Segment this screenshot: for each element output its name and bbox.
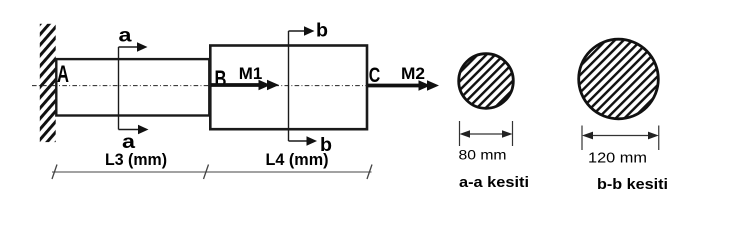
torque arrow M2 bbox=[368, 84, 423, 88]
section line b-b bbox=[289, 31, 309, 141]
svg-text:B: B bbox=[215, 66, 227, 92]
tick middle bbox=[204, 165, 209, 180]
svg-text:C: C bbox=[369, 63, 381, 87]
dimension line L3-L4 bbox=[52, 171, 372, 173]
dimension 80mm arrow bbox=[466, 133, 506, 135]
tick right bbox=[367, 165, 372, 180]
section b-b circle bbox=[579, 39, 659, 119]
section a-a circle bbox=[459, 54, 514, 109]
torque arrow M1 bbox=[211, 83, 262, 87]
arrowhead a top bbox=[137, 42, 148, 51]
dimension 120mm arrow bbox=[589, 135, 652, 137]
dimension 80mm ext lines bbox=[459, 121, 461, 146]
svg-text:L3 (mm): L3 (mm) bbox=[105, 151, 167, 169]
arrowhead b bottom bbox=[307, 136, 318, 145]
svg-text:b-b kesiti: b-b kesiti bbox=[597, 176, 668, 193]
section line a-a bbox=[119, 47, 141, 130]
arrowhead b top bbox=[304, 26, 315, 35]
shaft segment BC bbox=[210, 46, 367, 130]
centerline bbox=[32, 85, 367, 87]
svg-text:120 mm: 120 mm bbox=[588, 151, 647, 167]
svg-text:b: b bbox=[316, 21, 328, 42]
svg-text:a: a bbox=[122, 132, 136, 153]
svg-text:M2: M2 bbox=[401, 64, 425, 83]
svg-text:A: A bbox=[57, 61, 69, 88]
svg-text:M1: M1 bbox=[239, 64, 263, 83]
arrowhead a bottom bbox=[138, 125, 149, 134]
tick left bbox=[52, 165, 57, 180]
svg-text:80 mm: 80 mm bbox=[459, 147, 507, 163]
wall fixed support hatch bbox=[40, 24, 56, 142]
dimension 120mm ext lines bbox=[581, 126, 583, 151]
svg-text:a-a kesiti: a-a kesiti bbox=[459, 174, 529, 191]
shaft segment AB bbox=[56, 59, 209, 115]
svg-text:L4 (mm): L4 (mm) bbox=[266, 151, 329, 169]
svg-text:a: a bbox=[119, 26, 133, 47]
